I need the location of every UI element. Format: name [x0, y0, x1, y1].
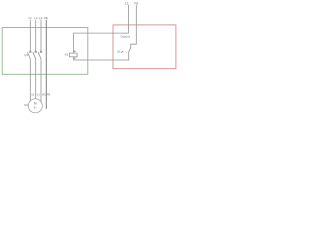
- svg-text:W1: W1: [42, 93, 46, 96]
- svg-text:U1: U1: [31, 93, 35, 96]
- svg-text:K1: K1: [65, 53, 69, 57]
- svg-text:3~: 3~: [34, 106, 38, 110]
- svg-text:L1: L1: [29, 16, 33, 20]
- svg-text:Q1: Q1: [24, 53, 28, 57]
- svg-text:PE: PE: [44, 16, 48, 20]
- svg-text:M1: M1: [24, 104, 28, 107]
- svg-text:L2: L2: [34, 16, 38, 20]
- svg-text:A2: A2: [74, 57, 77, 60]
- svg-text:L3: L3: [39, 16, 43, 20]
- svg-text:V1: V1: [37, 93, 41, 96]
- svg-text:PE: PE: [47, 93, 51, 96]
- svg-text:N1: N1: [135, 1, 139, 5]
- svg-text:Output1: Output1: [120, 34, 130, 38]
- svg-text:S1: S1: [117, 50, 121, 54]
- svg-text:A1: A1: [74, 50, 77, 53]
- svg-text:L1: L1: [125, 1, 129, 5]
